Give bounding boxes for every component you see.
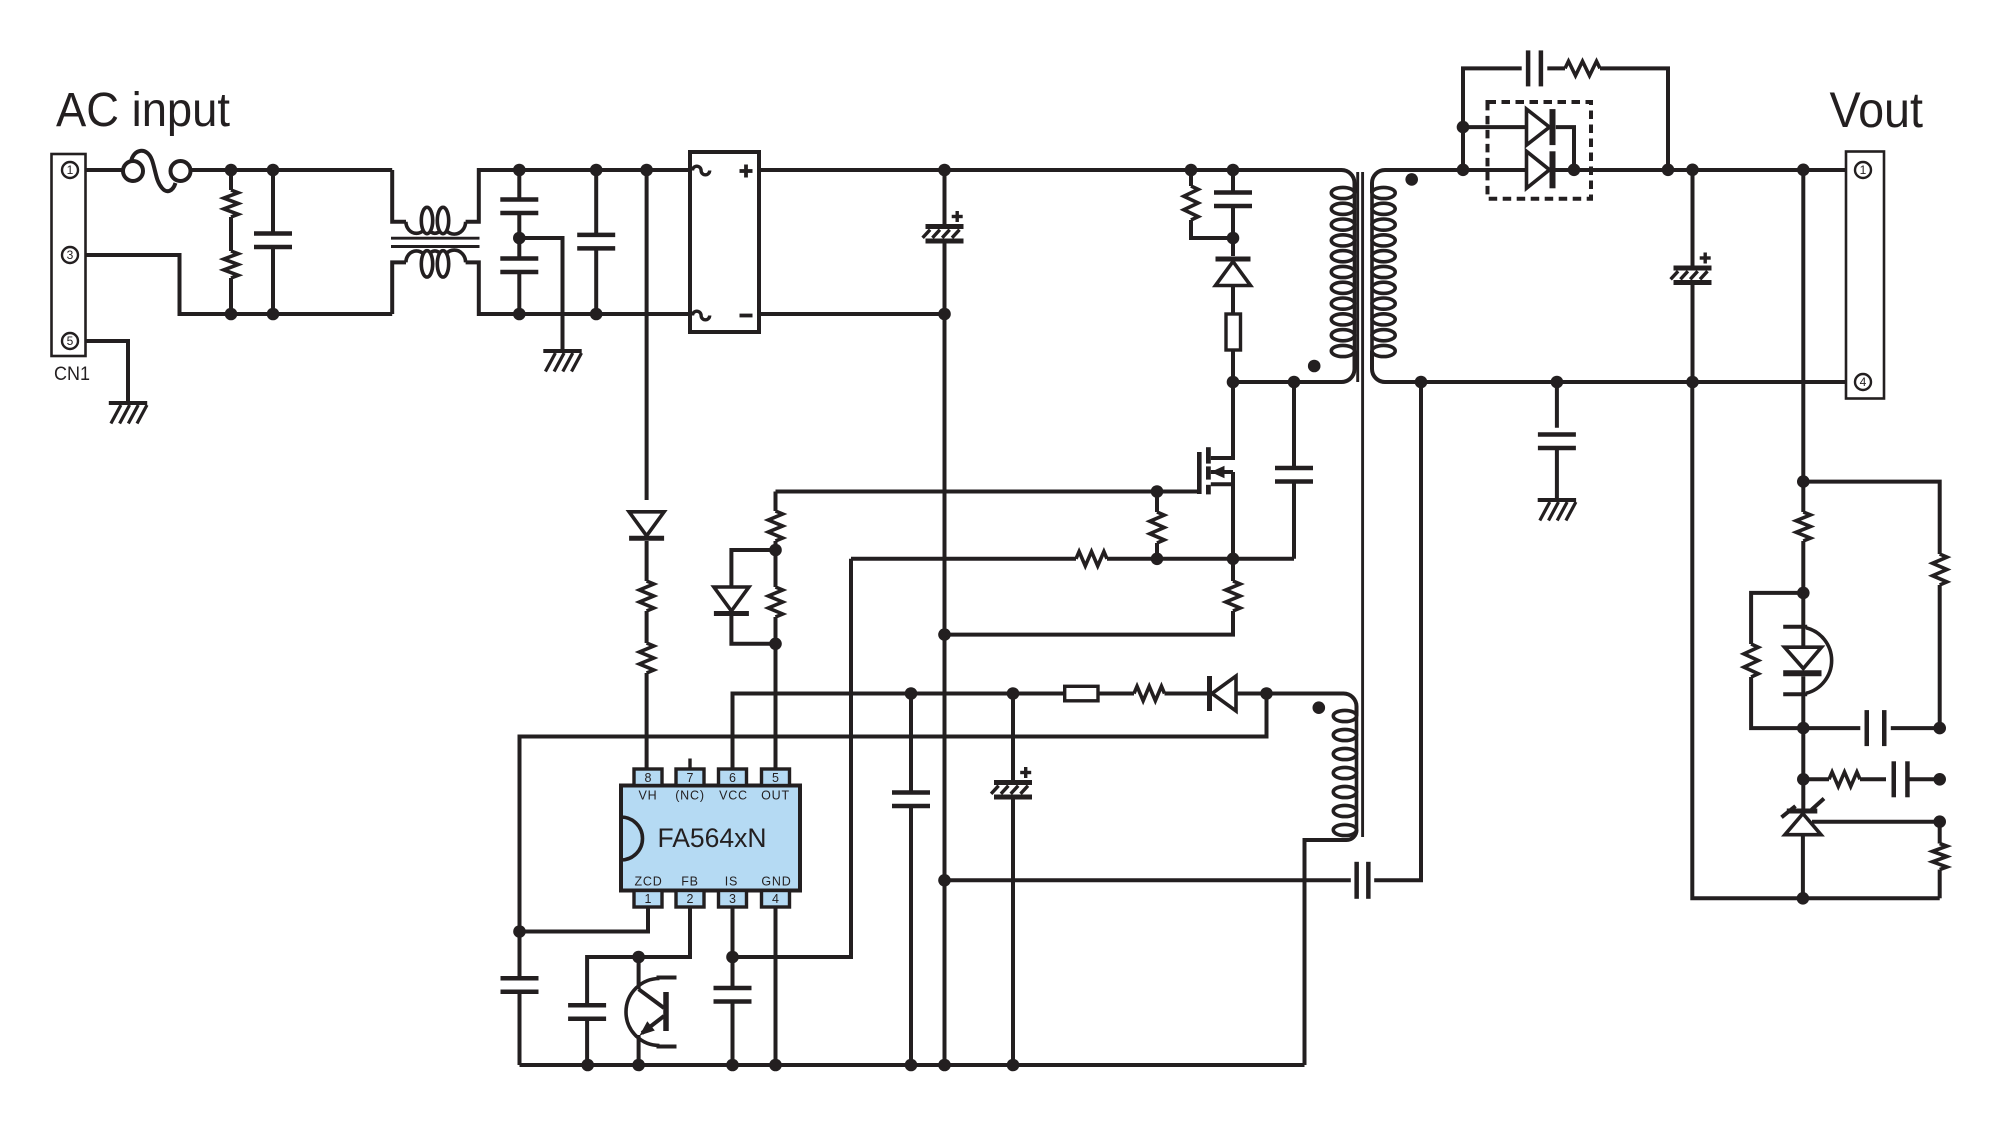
wire OUT pin riser: [774, 644, 778, 769]
resistor R10 VH upper: [639, 581, 653, 611]
node drain at primary bottom: [1227, 376, 1240, 389]
capacitor C11 IS filter: [714, 986, 752, 991]
svg-text:7: 7: [687, 771, 694, 785]
resistor R12 VCC series: [1134, 686, 1165, 700]
common-mode choke L1 core: [391, 237, 480, 240]
resistor R18 divider lower right: [1938, 822, 1942, 844]
capacitor C8 VCC electrolytic: [1011, 694, 1015, 783]
node bottom rail at R2: [225, 308, 238, 321]
wire ZCD to pin 1: [520, 907, 649, 932]
node FB at phototransistor: [632, 951, 645, 964]
IC U1 pin 1 box: [634, 891, 662, 908]
capacitor C17 compensation: [1892, 761, 1897, 797]
bridge rectifier DB1: [690, 152, 759, 332]
svg-text:3: 3: [729, 892, 736, 906]
resistor R17 divider upper right: [1932, 554, 1946, 585]
diode D5b rectifier lower: [1527, 151, 1550, 188]
node top rail at clamp resistor: [1185, 164, 1198, 177]
svg-text:FB: FB: [681, 875, 699, 889]
svg-text:1: 1: [1860, 163, 1867, 177]
wire FB pin drop: [587, 907, 690, 1006]
resistor R4 damping box: [1226, 314, 1241, 350]
node right leg at C16: [1933, 722, 1946, 735]
wire CN1 pin5 to protective earth: [86, 341, 129, 403]
IC U1 FA564xN body: [621, 786, 800, 891]
wire VCC to fusible resistor: [1013, 692, 1065, 696]
wire bottom rail into choke: [392, 262, 406, 314]
resistor R11 VH lower: [639, 643, 653, 673]
transformer T1 primary winding: [1353, 193, 1357, 351]
capacitor C4 bulk electrolytic: [943, 170, 947, 227]
svg-text:VCC: VCC: [719, 789, 748, 803]
svg-text:FA564xN: FA564xN: [657, 823, 766, 853]
wire D4 to aux winding: [1237, 692, 1267, 696]
svg-text:ZCD: ZCD: [634, 875, 662, 889]
fuse F1: [123, 161, 143, 181]
ground protective earth at CN1: [109, 401, 147, 405]
diode D4 VCC rectifier: [1212, 676, 1236, 711]
resistor R14 snubber: [1547, 66, 1565, 70]
node ground bus at interwinding cap line: [938, 874, 951, 887]
svg-text:1: 1: [645, 892, 652, 906]
IC U1 pin 7 box: [676, 769, 704, 786]
wire rectifier anode riser: [1461, 127, 1465, 170]
svg-text:CN1: CN1: [54, 364, 90, 385]
node secondary rail at rectifier input: [1457, 164, 1470, 177]
node TL431 upper at RC: [1797, 773, 1810, 786]
node LED cathode: [1797, 722, 1810, 735]
svg-text:5: 5: [67, 334, 74, 348]
common-mode choke L1 top winding: [406, 222, 466, 234]
node secondary return at C15: [1551, 376, 1564, 389]
wire VH to pin 8: [645, 673, 649, 769]
node rectifier upper anode: [1457, 121, 1470, 134]
node top rail VH feed: [640, 164, 653, 177]
resistor R3 clamp: [1189, 170, 1193, 186]
wire fuse to input filter node: [191, 168, 393, 172]
svg-text:OUT: OUT: [761, 789, 790, 803]
resistor R13 fusible box: [1065, 686, 1098, 701]
wire secondary winding to output return rail: [1372, 351, 1846, 382]
wire R13 to R12: [1098, 692, 1134, 696]
resistor R1: [229, 170, 233, 190]
IC U1 pin 4 box: [762, 891, 790, 908]
diode D1 clamp: [1216, 262, 1251, 286]
node secondary rail at C14: [1686, 164, 1699, 177]
node rail at C11: [726, 1059, 739, 1072]
capacitor C9 ZCD filter: [501, 976, 539, 981]
ground secondary: [1538, 498, 1576, 502]
wire upper diode cathode: [1556, 127, 1574, 170]
capacitor C2b Y-cap lower: [500, 256, 538, 261]
resistor R9 current sense: [1231, 559, 1235, 581]
node secondary return at C14: [1686, 376, 1699, 389]
transformer T1 secondary winding: [1370, 193, 1374, 351]
resistor R16 LED bypass: [1751, 593, 1803, 644]
wire primary ground bus: [943, 314, 947, 1065]
connector CN2 Vout: [1846, 152, 1884, 399]
node rail at C9: [581, 1059, 594, 1072]
capacitor C2a Y-cap upper: [517, 170, 521, 200]
wire feedback divider drop: [1801, 170, 1805, 512]
resistor R5 gate series: [774, 541, 778, 550]
IC U1 pin 5 box: [762, 769, 790, 786]
transistor Q1 MOSFET: [1197, 452, 1202, 494]
diode D5a rectifier upper: [1527, 109, 1550, 145]
wire choke top winding to top rail: [466, 170, 690, 222]
node rectifier cathode: [1568, 164, 1581, 177]
wire interwinding cap line: [945, 878, 1351, 882]
wire feedback bottom rail: [1692, 382, 1939, 898]
svg-text:(NC): (NC): [675, 789, 705, 803]
capacitor C13 snubber: [1526, 50, 1531, 86]
wire bridge negative: [759, 312, 945, 316]
node LED anode: [1797, 587, 1810, 600]
capacitor C15 secondary ground: [1555, 382, 1559, 428]
transformer T1 core: [1356, 172, 1359, 382]
wire drain: [1211, 382, 1233, 458]
node source line at R7: [1151, 553, 1164, 566]
node feedback bottom: [1797, 892, 1810, 905]
wire VCC pin riser: [733, 694, 1014, 770]
wire IS pin drop: [731, 907, 735, 988]
wire interwinding cap to secondary return: [1374, 382, 1421, 880]
capacitor C3 X-cap: [594, 170, 598, 235]
svg-text:4: 4: [1860, 375, 1867, 389]
node secondary return at interwinding cap: [1415, 376, 1428, 389]
IC U1 pin 6 box: [719, 769, 747, 786]
wire IS sense line: [733, 559, 852, 957]
node rail at ground bus: [938, 1059, 951, 1072]
resistor R15 feedback series: [1796, 512, 1810, 541]
wire R12 to D4: [1165, 692, 1212, 696]
node source at Q1: [1227, 553, 1240, 566]
capacitor C12 interwinding: [1354, 862, 1359, 899]
shunt regulator U2 TL431: [1787, 809, 1818, 814]
common-mode choke L1 bottom winding: [406, 250, 466, 262]
wire source: [1211, 472, 1233, 484]
connector CN1: [52, 154, 86, 356]
diode D2 gate speedup: [731, 550, 775, 588]
capacitor C16 feedback: [1803, 726, 1860, 730]
resistor R7 gate-source: [1155, 492, 1159, 513]
svg-text:AC input: AC input: [56, 84, 230, 137]
wire gate line: [776, 490, 1200, 494]
node right leg at C17: [1933, 773, 1946, 786]
svg-text:5: 5: [772, 771, 779, 785]
IC U1 pin 8 box: [634, 769, 662, 786]
node primary bottom at snubber cap: [1288, 376, 1301, 389]
wire clamp resistor to clamp cap bottom: [1191, 220, 1233, 238]
node rail at phototransistor emitter: [632, 1059, 645, 1072]
node gate at R7: [1151, 485, 1164, 498]
wire aux winding bottom: [1305, 830, 1357, 1065]
wire TL431 ref: [1812, 820, 1940, 824]
svg-text:2: 2: [687, 892, 694, 906]
node bridge negative at C4: [938, 308, 951, 321]
resistor R6 gate drive: [774, 617, 778, 644]
wire sense resistor to ground bus: [945, 611, 1234, 635]
node top rail at clamp cap: [1227, 164, 1240, 177]
node right leg at TL431 ref: [1933, 815, 1946, 828]
diode D3 VH: [629, 512, 664, 536]
node bottom rail at C1: [267, 308, 280, 321]
node top rail at C3: [590, 164, 603, 177]
node rail at C8: [1007, 1059, 1020, 1072]
wire top rail into choke: [392, 170, 406, 222]
capacitor C14 output electrolytic: [1691, 170, 1695, 268]
node bottom rail at C3: [590, 308, 603, 321]
wire aux winding top: [1267, 694, 1357, 717]
wire bridge positive to transformer: [759, 168, 1340, 172]
svg-text:3: 3: [67, 248, 74, 262]
node top rail at C4: [938, 164, 951, 177]
node between Y-caps: [513, 232, 526, 245]
capacitor C5 clamp: [1231, 170, 1235, 192]
opto LED PC1 input: [1801, 593, 1805, 647]
capacitor C10 FB filter: [568, 1003, 606, 1008]
node gate chain lower: [769, 638, 782, 651]
node ZCD at pin1 wire: [513, 925, 526, 938]
wire CN1 pin1 to fuse: [86, 168, 124, 172]
resistor R19 compensation: [1829, 772, 1860, 786]
package D5 dashed outline: [1488, 102, 1592, 199]
node secondary rail at feedback divider: [1797, 164, 1810, 177]
wire gate chain to gate line: [774, 492, 778, 512]
wire primary ground rail: [520, 1063, 1305, 1067]
node clamp RC junction: [1227, 232, 1240, 245]
wire upper diode anode: [1463, 125, 1526, 129]
svg-text:6: 6: [729, 771, 736, 785]
phase dot primary: [1308, 360, 1321, 373]
wire top rail into primary winding: [1333, 170, 1355, 193]
phase dot secondary: [1405, 173, 1418, 186]
svg-text:4: 4: [772, 892, 779, 906]
wire secondary snubber right riser: [1600, 68, 1668, 169]
node feedback top: [1797, 475, 1810, 488]
node secondary rail at snubber: [1662, 164, 1675, 177]
wire ZCD line: [520, 694, 1267, 978]
wire secondary winding to top rail: [1372, 170, 1846, 193]
svg-text:8: 8: [645, 771, 652, 785]
svg-text:VH: VH: [639, 789, 658, 803]
ground protective earth at Y-caps: [543, 349, 581, 353]
node top rail at C2a: [513, 164, 526, 177]
capacitor C1 X-cap: [271, 170, 275, 233]
wire secondary snubber left riser: [1463, 68, 1522, 169]
node ground bus at sense return: [938, 628, 951, 641]
node rail at GND pin: [769, 1059, 782, 1072]
phase dot auxiliary: [1313, 701, 1326, 714]
wire LED cathode to TL431: [1801, 728, 1805, 808]
node VCC at ceramic cap: [905, 687, 918, 700]
node VCC at electrolytic: [1007, 687, 1020, 700]
node top rail at R1: [225, 164, 238, 177]
node top rail at C1: [267, 164, 280, 177]
IC U1 pin 3 box: [719, 891, 747, 908]
wire Y-cap midpoint to earth: [519, 238, 562, 351]
capacitor C6 drain snubber: [1292, 382, 1296, 468]
phototransistor PC1 output: [637, 957, 641, 989]
svg-text:IS: IS: [725, 875, 738, 889]
node rail at C7: [905, 1059, 918, 1072]
wire choke bottom winding to bottom rail: [466, 262, 690, 314]
svg-text:GND: GND: [761, 875, 791, 889]
IC U1 pin 2 box: [676, 891, 704, 908]
node ZCD tap at aux winding: [1260, 687, 1273, 700]
wire feedback top link: [1803, 482, 1939, 554]
wire CN1 pin3 to bottom rail: [86, 255, 393, 314]
capacitor C7 VCC ceramic: [909, 694, 913, 793]
transformer T1 auxiliary winding: [1355, 716, 1359, 830]
wire source line: [851, 557, 1076, 561]
resistor R2: [224, 251, 238, 278]
IC U1 pin 7 NC stub: [688, 759, 691, 770]
node gate chain upper: [769, 544, 782, 557]
wire GND pin to rail: [774, 907, 778, 1065]
node bottom rail at C2b: [513, 308, 526, 321]
node IS at pin3 wire: [726, 951, 739, 964]
wire primary winding to drain line: [1233, 351, 1355, 382]
svg-text:Vout: Vout: [1830, 82, 1924, 138]
wire VH feed: [645, 170, 649, 500]
svg-text:1: 1: [67, 163, 74, 177]
wire TL431 cathode bottom: [1801, 835, 1805, 899]
resistor R8 current sense filter: [1076, 552, 1107, 566]
